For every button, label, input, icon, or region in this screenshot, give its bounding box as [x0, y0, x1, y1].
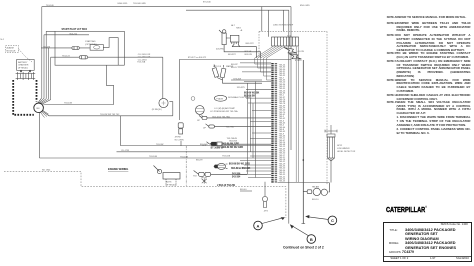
ASTS toggle switch [154, 166, 181, 187]
svg-text:ENGINE WIRING: ENGINE WIRING [108, 167, 128, 171]
HM meters [303, 183, 329, 196]
right bus vertical 2 [288, 10, 290, 223]
CATERPILLAR logo [386, 205, 427, 214]
svg-text:863-968: 863-968 [229, 141, 237, 143]
svg-text:T63-56: T63-56 [279, 178, 286, 180]
svg-text:T63-55: T63-55 [279, 174, 286, 176]
starter jog wire right [40, 65, 272, 158]
svg-text:T63-33: T63-33 [279, 80, 286, 82]
svg-text:(IF REQD): (IF REQD) [18, 67, 28, 69]
svg-text:Y63-10B: Y63-10B [222, 156, 231, 158]
svg-text:863-89 W1-BK: 863-89 W1-BK [244, 93, 260, 95]
LP switch circle [159, 98, 168, 107]
svg-text:+B: +B [240, 30, 243, 32]
svg-text:T63-42: T63-42 [279, 118, 286, 120]
svg-text:CU-17W: CU-17W [121, 150, 129, 152]
svg-text:T63-49: T63-49 [279, 148, 286, 150]
svg-text:START PILOT JCT BOX: START PILOT JCT BOX [62, 28, 88, 31]
svg-text:T63: T63 [193, 176, 197, 178]
svg-text:T63-340: T63-340 [46, 5, 55, 7]
fuse F2 [79, 56, 87, 59]
svg-text:WATER: WATER [226, 65, 234, 68]
battery charger box [17, 60, 35, 73]
WTS sensor cluster [212, 65, 262, 84]
svg-text:863-9P: 863-9P [245, 51, 252, 53]
svg-text:863-1054 T63-78A: 863-1054 T63-78A [212, 116, 230, 119]
top bus line 2 [186, 9, 289, 11]
svg-text:863-89 BK GRD: 863-89 BK GRD [222, 144, 239, 146]
L/O sender circle [195, 106, 204, 115]
svg-text:CU-13G3 OR: CU-13G3 OR [138, 54, 151, 56]
svg-text:MODULE: MODULE [7, 50, 17, 52]
svg-text:T63-1M: T63-1M [43, 46, 50, 48]
svg-text:T63-2W 3W T63 T62: T63-2W 3W T63 T62 [100, 114, 120, 116]
svg-text:T63-50: T63-50 [279, 153, 286, 155]
svg-text:T63-30: T63-30 [279, 67, 286, 69]
svg-text:863-10: 863-10 [312, 199, 319, 201]
svg-text:963-722: 963-722 [69, 34, 77, 36]
junction box dashed outline [259, 31, 327, 185]
JB horizontal terminal strip [272, 37, 299, 46]
svg-text:T63-10B: T63-10B [180, 156, 189, 158]
connector c1 [199, 116, 271, 120]
long wire y145.5 [120, 145, 271, 147]
oval plug [214, 95, 226, 101]
svg-text:T63-47: T63-47 [279, 140, 286, 142]
long wire y158 [40, 157, 272, 159]
inner compartment line [56, 34, 89, 36]
glow arrow 1 [284, 48, 302, 60]
svg-text:J/P: J/P [203, 127, 207, 129]
svg-text:T63-52: T63-52 [279, 161, 286, 163]
starter funnel [38, 98, 51, 105]
wires entering strip from left [236, 63, 271, 178]
svg-text:873-372 or 404-372: 873-372 or 404-372 [188, 56, 207, 59]
svg-text:T63-10B: T63-10B [149, 156, 158, 158]
svg-text:T63-70A W: T63-70A W [226, 137, 236, 140]
alternator cluster [219, 30, 261, 58]
svg-text:ALT: ALT [231, 24, 235, 27]
title block [383, 222, 472, 263]
riser to LP switch [169, 102, 172, 116]
svg-text:873-340: 873-340 [203, 1, 211, 3]
balloon A [254, 221, 263, 230]
balloon B [307, 235, 316, 244]
svg-text:SM: SM [36, 108, 39, 110]
svg-text:403-3P2: 403-3P2 [228, 54, 237, 56]
svg-text:GP12: GP12 [337, 145, 343, 147]
svg-text:T63-41: T63-41 [279, 114, 286, 116]
top bus line 1 [42, 6, 291, 8]
svg-text:ASTS: ASTS [166, 181, 172, 184]
svg-text:J/P4: J/P4 [264, 211, 269, 213]
svg-text:T63-53: T63-53 [279, 166, 286, 168]
oval connector mid-bottom [214, 163, 228, 169]
svg-text:T63-36: T63-36 [279, 93, 286, 95]
svg-text:CU-13G2 OR: CU-13G2 OR [138, 57, 151, 59]
svg-text:Continued on Sheet 2 of 2: Continued on Sheet 2 of 2 [283, 246, 324, 250]
svg-text:T63-34: T63-34 [279, 84, 286, 86]
starter bottom drop [39, 113, 41, 158]
svg-text:T63-31: T63-31 [279, 71, 286, 73]
svg-text:F ADM: F ADM [217, 97, 224, 100]
svg-text:T63-37: T63-37 [279, 97, 286, 99]
svg-text:863-99: 863-99 [196, 160, 203, 162]
lines below strip [296, 47, 305, 224]
vertical terminal strip [271, 63, 273, 183]
balloon C [328, 216, 337, 225]
svg-text:LOW WATER: LOW WATER [337, 147, 350, 150]
glow plug GP12 [325, 125, 337, 161]
riser JB to bus [262, 7, 284, 37]
svg-text:2 863-10 T63-2W: 2 863-10 T63-2W [217, 185, 236, 187]
svg-text:863-89 BK W2 GRD: 863-89 BK W2 GRD [222, 147, 243, 149]
relay jog wire [103, 38, 118, 65]
dash-dot boundary [185, 146, 187, 186]
svg-text:J/P: J/P [197, 120, 201, 122]
svg-text:N-2: N-2 [1, 39, 5, 41]
svg-text:T63-35: T63-35 [279, 88, 286, 90]
svg-text:B03-1P2: B03-1P2 [246, 43, 255, 45]
svg-text:343-356: 343-356 [232, 173, 241, 176]
wire y182.5 to glow plug [278, 158, 332, 183]
start pilot jct box [41, 31, 163, 65]
wire bundle verticals to starter [38, 7, 57, 105]
battery [16, 72, 36, 80]
svg-text:T63-3W: T63-3W [156, 144, 163, 146]
svg-text:WTS 1/8: WTS 1/8 [213, 66, 222, 68]
terminal strip right labels [279, 65, 286, 183]
battery cable heavy dashed [13, 80, 36, 115]
svg-text:ENG GRD: ENG GRD [300, 5, 310, 7]
svg-text:873-309: 873-309 [233, 79, 241, 81]
svg-text:343-354: 343-354 [232, 175, 241, 178]
wire fuse1 [41, 47, 90, 49]
svg-text:T63-39: T63-39 [279, 105, 286, 107]
connector c2 [206, 124, 272, 128]
svg-text:BATTERY: BATTERY [18, 61, 28, 64]
engine junction inner box [179, 60, 291, 147]
svg-text:359-3P5: 359-3P5 [237, 87, 246, 89]
svg-text:A: A [257, 223, 260, 228]
svg-text:LIO PRESS B63-W2 T63-76A: LIO PRESS B63-W2 T63-76A [210, 110, 238, 113]
svg-text:T63-32: T63-32 [279, 75, 286, 77]
wire below strip: bulb [262, 182, 267, 208]
J/P2W connector on engine box edge [178, 123, 183, 134]
svg-text:T63-44: T63-44 [279, 127, 286, 129]
svg-text:T63-46: T63-46 [279, 135, 286, 137]
svg-text:T63-124: T63-124 [62, 56, 71, 58]
svg-text:ALARM: ALARM [7, 46, 14, 49]
svg-text:T63-51: T63-51 [279, 157, 286, 159]
svg-text:HM AM: HM AM [312, 185, 319, 188]
svg-text:L/O (M) (B) AIR TEMP: L/O (M) (B) AIR TEMP [214, 107, 235, 110]
propeller glyph [202, 179, 207, 184]
svg-text:J/P2W: J/P2W [175, 137, 181, 139]
connector pair bottom [194, 171, 247, 177]
tiny note balloon [191, 97, 195, 101]
start aid relay [90, 45, 103, 51]
svg-text:96 CONN: 96 CONN [175, 140, 185, 142]
svg-text:T63-43: T63-43 [279, 123, 286, 125]
svg-text:CHARGER: CHARGER [18, 64, 29, 67]
JB strip fan wires [255, 47, 285, 81]
long wire y151.8 [117, 151, 272, 153]
svg-text:(OPTIONAL): (OPTIONAL) [85, 43, 97, 46]
starter wire2 right [43, 111, 173, 116]
svg-text:T63-48: T63-48 [279, 144, 286, 146]
svg-text:863-9W: 863-9W [245, 54, 252, 56]
svg-text:T63-72A: T63-72A [137, 61, 146, 64]
svg-text:T63-38: T63-38 [279, 101, 286, 103]
wire fuse2 [51, 56, 163, 58]
fuse F1 [72, 47, 79, 50]
svg-text:T63-10B: T63-10B [64, 102, 73, 104]
connector c3 [207, 142, 272, 146]
svg-text:C: C [331, 218, 334, 223]
bottom-left dashed run [4, 171, 286, 218]
svg-text:LEVEL DETECTOR: LEVEL DETECTOR [337, 151, 356, 153]
svg-text:(IF REQD): (IF REQD) [152, 109, 162, 111]
svg-text:START AID: START AID [85, 40, 96, 43]
svg-text:T63-79A: T63-79A [226, 126, 235, 129]
drop to wire y145.5 [119, 116, 121, 146]
svg-text:JUNCTION BOX REF: JUNCTION BOX REF [273, 25, 294, 27]
svg-text:NO 1944: NO 1944 [42, 170, 51, 172]
starter circle SM [34, 103, 44, 113]
svg-text:403-P80: 403-P80 [216, 49, 225, 51]
svg-text:T63-340 GRD: T63-340 GRD [133, 3, 146, 5]
svg-text:T63-45: T63-45 [279, 131, 286, 133]
svg-text:T63-54: T63-54 [279, 170, 286, 172]
svg-text:(IF REQD): (IF REQD) [166, 184, 176, 186]
ALARM MODULE dashed box [6, 46, 33, 63]
right bus vertical 1 [290, 7, 292, 150]
svg-text:T63-40: T63-40 [279, 110, 286, 112]
svg-text:ENG GRD: ENG GRD [118, 3, 128, 5]
svg-text:B: B [310, 237, 313, 242]
NOTES COLUMN [397, 16, 471, 20]
